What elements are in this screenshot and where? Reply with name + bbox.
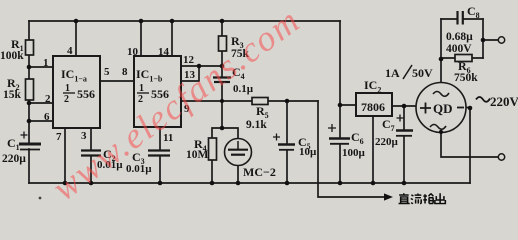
- node R4/MC2: [220, 126, 225, 131]
- node snubber left/QD top: [439, 57, 444, 62]
- wire 7806 input left: [340, 104, 356, 106]
- wire MC2 bottom lead: [237, 166, 239, 184]
- wire 7806 output to rail: [339, 21, 341, 105]
- wire 7806 ground pin: [372, 116, 374, 183]
- wire 7806 right to QD: [392, 105, 417, 107]
- node pin1/R1/R2: [27, 65, 32, 70]
- node QD minus: [468, 106, 473, 111]
- svg-text:7806: 7806: [361, 100, 385, 114]
- node C5 tap: [285, 99, 290, 104]
- label IC1-b 1/2 556: [137, 83, 169, 105]
- wire pin 13: [181, 66, 199, 81]
- terminal AC top: [498, 37, 504, 43]
- capacitor C2: [81, 151, 101, 156]
- svg-text:12: 12: [183, 54, 195, 66]
- svg-text:10: 10: [127, 46, 139, 58]
- svg-text:10M: 10M: [186, 149, 209, 161]
- svg-text:15k: 15k: [3, 89, 22, 101]
- node rail MC2: [236, 181, 241, 186]
- capacitor C7: [396, 115, 413, 136]
- node rail C2: [89, 181, 94, 186]
- svg-text:2: 2: [64, 94, 69, 105]
- node rail C3: [158, 181, 163, 186]
- resistor R1: [26, 40, 34, 55]
- op-amp U2 IC1-b box: [134, 56, 181, 127]
- svg-text:6: 6: [44, 111, 50, 123]
- svg-text:50V: 50V: [412, 66, 433, 80]
- svg-text:0.01µ: 0.01µ: [126, 163, 152, 175]
- wire R6 leads: [441, 57, 483, 59]
- svg-text:750k: 750k: [454, 72, 478, 84]
- label DC output 直流输出 (drawn strokes): [399, 193, 446, 203]
- wire pin 7: [64, 128, 66, 183]
- svg-text:QD: QD: [433, 101, 453, 116]
- wire snubber left vertical: [440, 19, 442, 59]
- wire R4 bottom lead: [211, 160, 213, 183]
- svg-text:0.1µ: 0.1µ: [233, 83, 254, 95]
- svg-text:220µ: 220µ: [2, 153, 26, 165]
- DC output arrow: [384, 193, 393, 200]
- svg-text:100k: 100k: [0, 50, 24, 62]
- node R3/C4: [220, 64, 225, 69]
- wire R4 branch: [212, 128, 222, 138]
- svg-text:7: 7: [56, 131, 62, 143]
- wire pin 11: [159, 127, 161, 150]
- svg-text:400V: 400V: [446, 43, 472, 55]
- capacitor C5: [273, 134, 295, 150]
- svg-text:220µ: 220µ: [375, 136, 399, 148]
- wire pin 9 output: [181, 100, 252, 102]
- label ~220V: [476, 97, 490, 102]
- svg-text:MC−2: MC−2: [243, 165, 276, 179]
- wire snubber top with C8 gap: [441, 18, 483, 20]
- capacitor C1: [19, 132, 41, 150]
- wire QD top lead: [440, 59, 442, 83]
- transducer MC-2: [225, 139, 252, 166]
- capacitor C4: [213, 78, 231, 83]
- wire pin 14: [171, 21, 173, 56]
- node rail 7806: [371, 181, 376, 186]
- wire bottom ground rail: [29, 182, 470, 184]
- svg-text:556: 556: [77, 87, 95, 101]
- capacitor C3: [148, 151, 170, 156]
- svg-text:14: 14: [158, 46, 170, 58]
- svg-text:8: 8: [122, 66, 128, 78]
- IC2 7806 box: [356, 93, 392, 116]
- svg-text:1: 1: [43, 57, 49, 69]
- svg-text:9.1k: 9.1k: [246, 119, 267, 131]
- op-amp U1 IC1-a box: [53, 56, 100, 128]
- node pin6/C1: [27, 119, 32, 124]
- node rail pin7: [63, 181, 68, 186]
- wire top rail VCC: [29, 20, 340, 22]
- wire C2 bottom lead: [90, 156, 92, 183]
- wire C6 top lead: [339, 105, 341, 138]
- capacitor C8: [458, 11, 463, 25]
- resistor R6: [455, 55, 472, 62]
- wire R4/MC2 branch vertical: [221, 101, 223, 128]
- wire node 12/13 to R3/C4: [199, 65, 222, 67]
- node 7806 in: [338, 103, 343, 108]
- node 12-13 tie: [197, 64, 202, 69]
- node pin4/rail: [74, 19, 79, 24]
- svg-text:220V: 220V: [490, 94, 518, 109]
- wire pin 12: [181, 65, 199, 67]
- wire pin 1: [29, 66, 53, 68]
- wire C3 bottom lead: [159, 156, 161, 183]
- wire C1 bottom lead: [28, 149, 30, 183]
- wire C4 top lead: [221, 66, 223, 77]
- node C7 tap: [402, 104, 407, 109]
- wire top AC terminal: [483, 39, 498, 41]
- svg-text:100µ: 100µ: [342, 147, 366, 159]
- wire pin 2: [29, 102, 53, 104]
- resistor R3: [219, 36, 227, 51]
- node R3/rail: [220, 19, 225, 24]
- node pin2/R2: [27, 101, 32, 106]
- bridge rectifier QD: [416, 83, 466, 133]
- wire pin 3: [90, 128, 92, 150]
- node rail C5: [285, 181, 290, 186]
- terminal AC bottom: [498, 154, 504, 160]
- node AC top tap: [481, 38, 486, 43]
- wire QD bottom lead to AC terminal: [441, 133, 498, 158]
- capacitor C6: [328, 124, 350, 144]
- wire DC output tap: [318, 101, 385, 197]
- wire pin 4: [75, 21, 77, 56]
- svg-text:10µ: 10µ: [299, 146, 317, 158]
- label IC1-a 1/2 556: [63, 83, 95, 105]
- node rail R4: [210, 181, 215, 186]
- wire pin 6: [29, 120, 53, 122]
- node rail C6: [338, 181, 343, 186]
- wire C6 bottom lead: [339, 144, 341, 183]
- wire pin 10: [140, 21, 142, 56]
- wire snubber right vertical: [482, 19, 484, 58]
- wire QD right lead: [466, 107, 470, 109]
- node C4/pin9: [220, 99, 224, 103]
- wire left vertical R1/R2 branch: [28, 21, 30, 144]
- resistor R2: [26, 79, 34, 100]
- node rail C7: [402, 181, 407, 186]
- svg-text:3: 3: [81, 130, 87, 142]
- wire R3 bottom lead: [221, 51, 223, 66]
- wire pin 5 to pin 8: [100, 80, 134, 82]
- svg-text:5: 5: [104, 66, 110, 78]
- wire C5 bottom lead: [286, 150, 288, 183]
- wire C5 top lead: [286, 101, 288, 144]
- wire MC2 branch: [222, 128, 238, 139]
- node pin14/rail: [170, 19, 175, 24]
- wire R3 top lead: [221, 21, 223, 36]
- wire C7 bottom lead: [403, 136, 405, 183]
- stray mark: [39, 197, 42, 200]
- svg-text:1A: 1A: [385, 66, 400, 80]
- node pin10/rail: [139, 19, 144, 24]
- svg-text:2: 2: [45, 93, 51, 105]
- svg-text:0.68µ: 0.68µ: [446, 31, 473, 43]
- resistor R4: [209, 138, 217, 160]
- wire C4 bottom lead: [221, 82, 223, 101]
- resistor R5: [252, 98, 268, 105]
- wire R5 right lead: [268, 100, 318, 102]
- node QD bottom lead: [439, 130, 443, 134]
- svg-text:4: 4: [67, 45, 73, 57]
- wire C7 top lead: [403, 106, 405, 130]
- wire QD minus to ground rail: [469, 108, 471, 183]
